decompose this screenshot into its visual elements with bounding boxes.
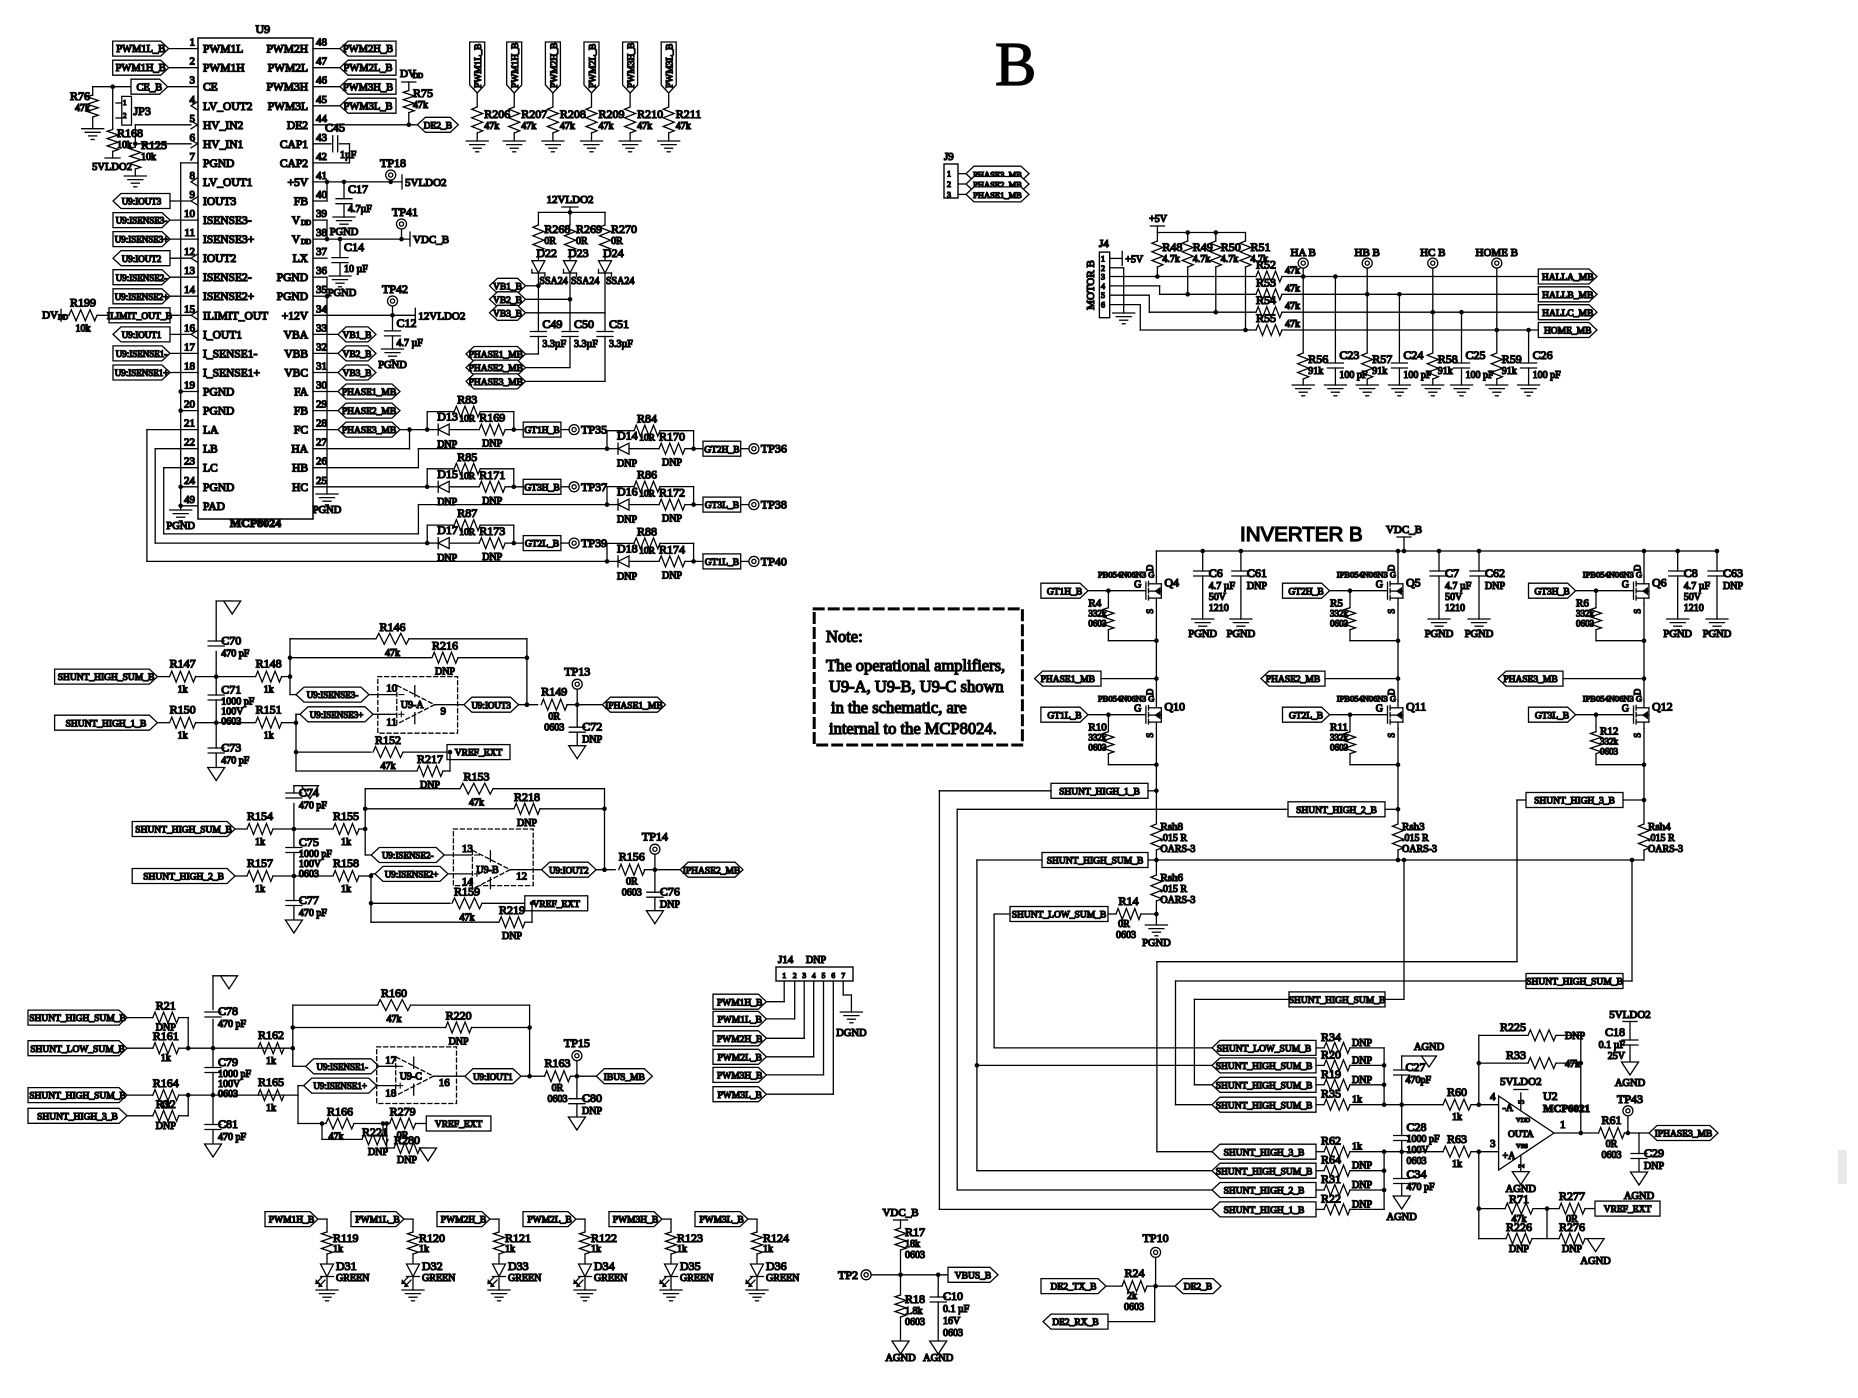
- svg-text:C28: C28: [1407, 1120, 1427, 1134]
- svg-text:R48: R48: [1162, 240, 1182, 254]
- svg-text:18: 18: [184, 361, 196, 373]
- svg-text:0R: 0R: [626, 877, 638, 888]
- wire LX: [313, 257, 327, 259]
- U9 pin 16 I_OUT1: [197, 333, 199, 335]
- net tag GT1L_B: [703, 554, 741, 569]
- resistor R58 91k: [1432, 312, 1434, 352]
- svg-text:DNP: DNP: [437, 497, 457, 508]
- test point TP36: [749, 444, 759, 454]
- svg-text:1210: 1210: [1684, 603, 1704, 614]
- ground: [569, 746, 586, 759]
- svg-text:R280: R280: [394, 1133, 420, 1147]
- wire gate: [1088, 590, 1146, 592]
- svg-text:9: 9: [441, 706, 447, 718]
- net tag SHUNT_HIGH_SUM_B: [1212, 1163, 1316, 1178]
- wire: [505, 486, 523, 488]
- net tag PHASE1_MB: [1035, 671, 1101, 686]
- wire: [1148, 859, 1156, 861]
- svg-text:PAD: PAD: [203, 501, 225, 513]
- svg-text:C63: C63: [1723, 566, 1743, 580]
- svg-text:C50: C50: [574, 317, 594, 331]
- wire: [521, 1075, 545, 1077]
- svg-text:DE2_RX_B: DE2_RX_B: [1052, 1318, 1098, 1328]
- svg-text:1: 1: [947, 170, 951, 179]
- svg-text:R217: R217: [417, 752, 443, 766]
- svg-text:R150: R150: [170, 703, 196, 717]
- wire: [685, 504, 703, 506]
- svg-text:LV_OUT2: LV_OUT2: [203, 101, 253, 113]
- svg-text:DNP: DNP: [1562, 1244, 1582, 1255]
- svg-text:C27: C27: [1406, 1060, 1426, 1074]
- resistor R32 DNP: [153, 1110, 179, 1121]
- svg-text:MOTOR B: MOTOR B: [1085, 260, 1097, 310]
- wire: [179, 1094, 189, 1096]
- svg-text:HOME B: HOME B: [1476, 247, 1518, 259]
- svg-text:1k: 1k: [266, 1056, 276, 1067]
- capacitor C75 1000 pF: [293, 829, 295, 848]
- svg-text:C25: C25: [1466, 348, 1486, 362]
- U9 pin 20 PGND: [197, 410, 199, 412]
- wire: [1471, 1151, 1499, 1153]
- LED D33 GREEN: [493, 1264, 506, 1277]
- svg-text:0603: 0603: [1116, 930, 1136, 941]
- svg-text:20: 20: [184, 399, 196, 411]
- svg-text:C23: C23: [1339, 348, 1359, 362]
- svg-text:C74: C74: [299, 786, 319, 800]
- wire J14 pin 3: [803, 981, 805, 1038]
- svg-text:Q10: Q10: [1164, 700, 1185, 714]
- U9 pin 21 LA: [197, 429, 199, 431]
- svg-text:DNP: DNP: [662, 458, 682, 469]
- svg-text:Rsh3: Rsh3: [1402, 821, 1425, 833]
- svg-text:DNP: DNP: [806, 955, 826, 966]
- svg-text:R50: R50: [1221, 240, 1241, 254]
- svg-text:GREEN: GREEN: [766, 1273, 799, 1284]
- wire: [1107, 630, 1109, 641]
- svg-text:91k: 91k: [1372, 366, 1387, 377]
- wire: [1316, 1208, 1324, 1210]
- wire SHUNT_HIGH_SUM loop: [977, 859, 1042, 861]
- net tag PHASE2_MB: [966, 177, 1029, 192]
- net tag PWM2H_B: [437, 1212, 490, 1227]
- svg-text:TP18: TP18: [380, 156, 406, 170]
- svg-text:33: 33: [316, 322, 328, 334]
- svg-text:25V: 25V: [1608, 1051, 1626, 1062]
- svg-text:332k: 332k: [1330, 609, 1349, 619]
- net tag PWM1L_B: [113, 41, 169, 56]
- svg-text:HALLA_MB: HALLA_MB: [1542, 273, 1594, 283]
- svg-text:DNP: DNP: [482, 496, 502, 507]
- wire: [359, 875, 371, 877]
- resistor R166 47k: [326, 1118, 354, 1129]
- svg-text:R225: R225: [1500, 1020, 1526, 1034]
- ground: [1113, 312, 1135, 314]
- wire drain: [1397, 551, 1399, 577]
- svg-text:SHUNT_HIGH_SUM_B: SHUNT_HIGH_SUM_B: [29, 1014, 126, 1024]
- wire: [313, 105, 340, 107]
- wire out: [435, 704, 464, 706]
- wire: [1350, 1151, 1384, 1153]
- capacitor C76 DNP: [654, 870, 656, 893]
- wire: [313, 86, 340, 88]
- wire: [181, 410, 198, 412]
- wire: [169, 48, 198, 50]
- svg-text:30: 30: [316, 380, 328, 392]
- svg-text:SHUNT_HIGH_SUM_B: SHUNT_HIGH_SUM_B: [1216, 1081, 1313, 1091]
- net tag PWM3L_B (vertical): [661, 42, 676, 93]
- svg-text:4: 4: [812, 971, 816, 980]
- svg-text:R159: R159: [454, 884, 480, 898]
- resistor R159 47k: [452, 898, 482, 909]
- svg-text:DNP: DNP: [517, 818, 537, 829]
- svg-text:Q6: Q6: [1652, 576, 1667, 590]
- svg-text:CE: CE: [203, 82, 218, 94]
- svg-text:1k: 1k: [341, 837, 351, 848]
- svg-text:DNP: DNP: [1644, 1161, 1664, 1172]
- svg-text:TP37: TP37: [581, 480, 607, 494]
- svg-text:I_SENSE1-: I_SENSE1-: [203, 348, 257, 360]
- svg-text:Q11: Q11: [1406, 700, 1426, 714]
- wire: [313, 143, 331, 145]
- svg-text:PWM1L: PWM1L: [203, 44, 243, 56]
- net tag IPHASE3_MB: [1649, 1126, 1718, 1141]
- capacitor C78 470pF: [205, 1011, 221, 1013]
- svg-text:U9-A: U9-A: [401, 700, 425, 711]
- resistor Rsh6 .015R: [1155, 860, 1157, 874]
- svg-text:10: 10: [386, 683, 398, 695]
- resistor R86 10R parallel: [606, 487, 608, 505]
- svg-text:SHUNT_HIGH_3_B: SHUNT_HIGH_3_B: [37, 1112, 118, 1122]
- capacitor C63 DNP: [1715, 549, 1720, 554]
- svg-text:U9:ISENSE2-: U9:ISENSE2-: [382, 851, 434, 861]
- svg-text:IPHASE1_MB: IPHASE1_MB: [605, 701, 663, 711]
- svg-text:1k: 1k: [255, 837, 265, 848]
- ground: [503, 140, 525, 142]
- wire: [1349, 630, 1351, 641]
- resistor R87 10R parallel: [426, 525, 428, 543]
- wire: [313, 429, 338, 431]
- ground: [205, 1144, 222, 1157]
- net tag PWM2L_B: [713, 1049, 766, 1064]
- svg-text:PGND: PGND: [313, 505, 342, 516]
- svg-text:R155: R155: [333, 809, 359, 823]
- svg-text:DNP: DNP: [1723, 581, 1743, 592]
- svg-text:R83: R83: [457, 393, 477, 407]
- svg-text:LB: LB: [203, 444, 218, 456]
- svg-text:U9: U9: [256, 22, 271, 36]
- wire HC: [313, 486, 427, 488]
- svg-text:0603: 0603: [1088, 743, 1107, 753]
- svg-text:SHUNT_LOW_SUM_B: SHUNT_LOW_SUM_B: [1012, 911, 1106, 921]
- svg-text:4: 4: [1101, 282, 1105, 291]
- wire: [1101, 678, 1156, 680]
- svg-text:FA: FA: [294, 387, 309, 399]
- wire: [318, 1218, 327, 1220]
- svg-text:HALLB_MB: HALLB_MB: [1542, 291, 1593, 301]
- node junction: [605, 502, 610, 507]
- wire hall row: [1188, 293, 1256, 295]
- svg-text:AGND: AGND: [1624, 1191, 1655, 1202]
- wire: [569, 337, 571, 368]
- svg-text:SHUNT_HIGH_SUM_B: SHUNT_HIGH_SUM_B: [135, 826, 232, 836]
- resistor R226 DNP: [1479, 1238, 1506, 1240]
- wire: [490, 1218, 499, 1220]
- svg-text:470 pF: 470 pF: [218, 1132, 247, 1143]
- ground: [1356, 384, 1378, 386]
- svg-text:R166: R166: [327, 1105, 353, 1119]
- svg-text:1k: 1k: [419, 1244, 429, 1255]
- wire: [604, 251, 606, 261]
- svg-text:SSA24: SSA24: [606, 276, 634, 287]
- wire: [1350, 1064, 1384, 1066]
- jumper JP3: [122, 96, 132, 125]
- svg-text:R173: R173: [479, 524, 505, 538]
- svg-text:VB1_B: VB1_B: [493, 282, 522, 292]
- svg-text:0R: 0R: [552, 1083, 564, 1094]
- op-amp U9-B: [453, 829, 533, 886]
- svg-text:DNP: DNP: [582, 735, 602, 746]
- net tag PWM2H_B: [713, 1031, 766, 1046]
- wire: [1107, 754, 1109, 765]
- wire: [187, 1018, 189, 1049]
- wire: [370, 874, 372, 876]
- svg-text:Rsh6: Rsh6: [1160, 872, 1183, 884]
- ground PGND: [1667, 618, 1689, 620]
- node junction: [605, 446, 610, 451]
- wire: [93, 86, 113, 88]
- svg-text:16V: 16V: [943, 1316, 961, 1327]
- svg-text:AGND: AGND: [885, 1353, 916, 1364]
- svg-text:2: 2: [190, 56, 196, 68]
- svg-text:R17: R17: [905, 1225, 925, 1239]
- svg-text:U9:IOUT1: U9:IOUT1: [473, 1072, 513, 1082]
- wire: [273, 828, 332, 830]
- LED D36 GREEN: [751, 1264, 764, 1277]
- wire feedback: [291, 1046, 296, 1051]
- wire: [505, 542, 523, 544]
- svg-text:0603: 0603: [544, 723, 564, 734]
- wire HB: [313, 467, 418, 469]
- svg-text:R207: R207: [521, 107, 547, 121]
- resistor Rsh8 .015R: [1151, 824, 1162, 850]
- capacitor C79 1000pF: [212, 1048, 214, 1067]
- svg-text:OUTA: OUTA: [1508, 1130, 1534, 1140]
- U9 pin 6 HV_IN1: [197, 143, 199, 145]
- svg-text:VBC: VBC: [284, 368, 308, 380]
- svg-text:DNP: DNP: [662, 570, 682, 581]
- wire PGND right: [313, 276, 327, 278]
- svg-text:PHASE1_MB: PHASE1_MB: [469, 351, 523, 361]
- U9 pin 4 LV_OUT2: [197, 105, 199, 107]
- svg-text:AGND: AGND: [1414, 1042, 1445, 1053]
- ground AGND: [892, 1341, 909, 1354]
- resistor R119 1k: [322, 1232, 333, 1254]
- svg-text:SHUNT_HIGH_3_B: SHUNT_HIGH_3_B: [1534, 797, 1615, 807]
- svg-text:1k: 1k: [1452, 1159, 1462, 1170]
- svg-text:JP3: JP3: [134, 104, 151, 118]
- svg-text:SHUNT_LOW_SUM_B: SHUNT_LOW_SUM_B: [30, 1045, 124, 1055]
- svg-text:1k: 1k: [591, 1244, 601, 1255]
- svg-text:HB B: HB B: [1355, 247, 1380, 259]
- net tag GT2H_B: [1283, 583, 1330, 598]
- test point TP39: [569, 538, 579, 548]
- net tag SHUNT_HIGH_SUM_B: [132, 822, 235, 837]
- test point HC B: [1432, 268, 1434, 312]
- ground AGND: [1512, 1172, 1529, 1185]
- capacitor C70 470 pF: [208, 640, 224, 642]
- net tag PHASE2_MB: [338, 403, 400, 418]
- svg-text:+12V: +12V: [282, 310, 309, 322]
- svg-text:18: 18: [385, 1088, 397, 1100]
- svg-text:TP15: TP15: [564, 1036, 590, 1050]
- svg-text:PHASE1_MB: PHASE1_MB: [1041, 675, 1095, 685]
- resistor R19 DNP: [1324, 1079, 1350, 1090]
- net tag VB3_B: [338, 365, 376, 380]
- net tag PWM3L_B: [695, 1212, 748, 1227]
- svg-text:C17: C17: [348, 182, 368, 196]
- U9 pin 7 PGND: [197, 162, 199, 164]
- U9 pin 17 I_SENSE1-: [197, 352, 199, 354]
- svg-text:PWM2H: PWM2H: [266, 44, 308, 56]
- svg-text:DD: DD: [413, 72, 423, 80]
- wire: [127, 1094, 153, 1096]
- svg-text:C34: C34: [1407, 1167, 1427, 1181]
- resistor R50 4.7k: [1215, 233, 1217, 242]
- svg-text:0603: 0603: [943, 1328, 963, 1339]
- resistor R220 DNP: [293, 1027, 446, 1029]
- resistor R147 1k: [170, 671, 196, 682]
- svg-text:R19: R19: [1321, 1067, 1341, 1081]
- resistor R85 10R parallel: [426, 469, 428, 487]
- svg-text:4.7 µF: 4.7 µF: [1684, 581, 1711, 592]
- svg-text:47k: 47k: [469, 798, 484, 809]
- svg-text:42: 42: [316, 151, 327, 163]
- resistor R18 1.8k: [895, 1295, 906, 1317]
- net tag SHUNT_HIGH_SUM_B: [1289, 992, 1385, 1007]
- wire: [670, 1277, 672, 1291]
- resistor R125 10k: [134, 144, 136, 147]
- resistor R218 DNP: [365, 808, 513, 810]
- svg-text:332k: 332k: [1576, 609, 1595, 619]
- net tag PHASE3_MB: [966, 166, 1029, 181]
- diode D15 DNP: [427, 486, 438, 488]
- wire: [1316, 1104, 1324, 1106]
- svg-text:VB3_B: VB3_B: [342, 369, 371, 379]
- U9 pin arrow: [191, 178, 198, 186]
- svg-text:PWM3L_B: PWM3L_B: [699, 1216, 743, 1226]
- ground: [646, 911, 663, 924]
- test point HOME B: [1496, 268, 1498, 330]
- svg-text:U9:ISENSE3+: U9:ISENSE3+: [115, 235, 169, 245]
- svg-text:R120: R120: [419, 1231, 445, 1245]
- wire: [1479, 1208, 1505, 1210]
- svg-text:PB054N06N3 G: PB054N06N3 G: [1098, 570, 1154, 580]
- svg-text:47: 47: [316, 56, 328, 68]
- svg-text:13: 13: [184, 265, 196, 277]
- ground AGND: [1622, 1062, 1639, 1075]
- svg-text:10k: 10k: [76, 323, 91, 334]
- LED D31 GREEN: [321, 1264, 334, 1277]
- wire: [476, 93, 478, 106]
- wire: [1643, 679, 1645, 701]
- net tag VB3_B: [490, 305, 526, 320]
- svg-text:+5V: +5V: [1125, 254, 1144, 265]
- wire: [403, 751, 447, 753]
- svg-text:Note:: Note:: [826, 627, 863, 646]
- svg-text:PWM1H_B: PWM1H_B: [511, 43, 521, 88]
- resistor R211 47k: [663, 107, 674, 133]
- wire: [1316, 1064, 1324, 1066]
- ground: [568, 1117, 585, 1130]
- capacitor C25 100pF: [1461, 312, 1463, 363]
- net tag PHASE2_MB: [466, 360, 526, 375]
- junction: [1155, 274, 1160, 279]
- svg-text:1k: 1k: [255, 884, 265, 895]
- svg-text:R208: R208: [560, 107, 586, 121]
- svg-text:ISENSE2-: ISENSE2-: [203, 272, 252, 284]
- svg-text:PWM1H_B: PWM1H_B: [116, 63, 166, 74]
- test point TP41: [401, 229, 403, 239]
- wire: [273, 875, 332, 877]
- svg-text:VBUS_B: VBUS_B: [955, 1271, 991, 1281]
- wire: [1316, 1084, 1324, 1086]
- resistor R171 DNP: [479, 481, 505, 492]
- wire J14 pin 4: [813, 981, 815, 1057]
- svg-text:DNP: DNP: [368, 1147, 388, 1158]
- svg-text:27: 27: [316, 437, 328, 449]
- net tag U9:ISENSE3-: [113, 213, 170, 228]
- wire: [1350, 1189, 1384, 1191]
- svg-text:32: 32: [316, 341, 327, 353]
- svg-text:PWM3L_B: PWM3L_B: [718, 1091, 762, 1101]
- svg-text:R146: R146: [379, 620, 405, 634]
- svg-text:2: 2: [1101, 264, 1105, 273]
- net tag HOME_MB: [1538, 323, 1597, 338]
- wire: [513, 133, 515, 141]
- wire: [1316, 1151, 1324, 1153]
- resistor R152 47k: [373, 747, 403, 758]
- ground PGND: [1468, 618, 1490, 620]
- net tag SHUNT_HIGH_1_B: [1212, 1202, 1316, 1217]
- wire: [134, 125, 136, 144]
- svg-text:PWM3H_B: PWM3H_B: [613, 1216, 658, 1226]
- wire LC: [164, 467, 198, 469]
- wire +12V: [313, 314, 415, 316]
- wire: [404, 1218, 413, 1220]
- net tag PWM1L_B (vertical): [470, 42, 485, 93]
- svg-text:IPB054N06N3 G: IPB054N06N3 G: [1583, 570, 1642, 580]
- net tag PWM1H_B: [265, 1212, 318, 1227]
- svg-text:R163: R163: [544, 1056, 570, 1070]
- resistor R31 DNP: [1324, 1185, 1350, 1196]
- ground: [301, 786, 318, 799]
- wire hall row: [1216, 311, 1256, 313]
- wire: [937, 1302, 939, 1341]
- svg-text:DE2: DE2: [287, 120, 308, 132]
- net tag SHUNT_LOW_SUM_B: [1212, 1040, 1316, 1055]
- svg-text:1k: 1k: [341, 884, 351, 895]
- wire VDD38: [313, 238, 410, 240]
- svg-text:R59: R59: [1502, 352, 1522, 366]
- svg-text:C79: C79: [218, 1055, 238, 1069]
- ground PGND: [1192, 618, 1214, 620]
- wire: [1585, 1208, 1595, 1210]
- svg-text:R62: R62: [1321, 1134, 1341, 1148]
- diode D13 DNP: [427, 429, 438, 431]
- svg-text:PGND: PGND: [277, 272, 308, 284]
- svg-text:PGND: PGND: [328, 288, 357, 299]
- net tag U9:ISENSE1-: [306, 1059, 379, 1074]
